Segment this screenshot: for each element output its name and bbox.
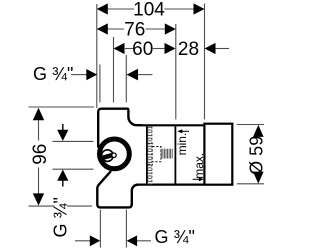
svg-text:60: 60 — [132, 39, 153, 60]
svg-text:G ¾": G ¾" — [51, 197, 71, 237]
svg-text:G ¾": G ¾" — [155, 227, 195, 247]
svg-text:104: 104 — [133, 0, 165, 20]
svg-text:76: 76 — [124, 20, 145, 41]
svg-text:Ø 59: Ø 59 — [247, 136, 267, 175]
svg-text:min.: min. — [175, 133, 189, 156]
svg-text:96: 96 — [30, 144, 51, 165]
svg-text:28: 28 — [178, 39, 199, 60]
svg-text:G ¾": G ¾" — [33, 64, 73, 84]
